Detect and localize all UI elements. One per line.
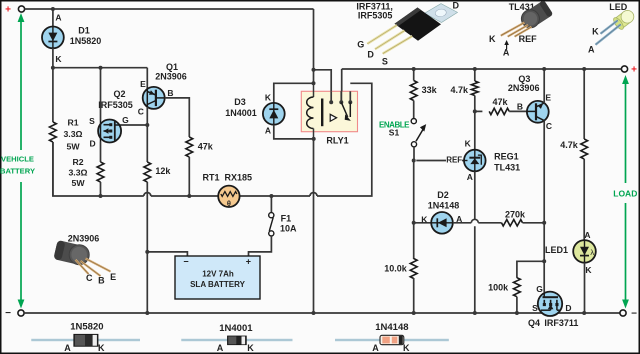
wire bottom horizontal mid bbox=[151, 195, 310, 197]
resistor 33k bbox=[410, 81, 417, 101]
wire contact 1 stub bbox=[330, 91, 332, 102]
label TL431 package bbox=[509, 2, 535, 12]
svg-text:B: B bbox=[167, 88, 173, 98]
label RT1 RX185 bbox=[203, 173, 253, 183]
wire 100k to bottom rail bbox=[516, 297, 518, 313]
wire 47k to bottom wire bbox=[188, 157, 190, 196]
svg-text:S1: S1 bbox=[389, 127, 400, 137]
wire Q1 collector bbox=[146, 107, 148, 125]
svg-text:C: C bbox=[546, 121, 552, 131]
pin A label 1N4148 bbox=[372, 343, 379, 353]
wire S1 to REF node bbox=[413, 147, 415, 161]
diode D1 bbox=[42, 27, 64, 49]
regulator REG1 TL431 bbox=[464, 150, 486, 172]
relay contact moving arm NC bbox=[330, 114, 336, 121]
pin S of Q2 bbox=[89, 116, 95, 126]
node D2 cathode junction bbox=[412, 221, 416, 225]
node Q3 collector / 270k bbox=[542, 221, 546, 225]
fuse F1 bbox=[269, 213, 274, 236]
svg-text:E: E bbox=[545, 92, 551, 102]
svg-text:E: E bbox=[110, 272, 116, 282]
pin C label 2N3906 bbox=[86, 273, 93, 283]
wire gate node to 100k bbox=[517, 261, 544, 278]
svg-text:1N4148: 1N4148 bbox=[375, 322, 408, 333]
svg-text:K: K bbox=[55, 54, 62, 64]
label LOAD bbox=[613, 189, 637, 199]
load arrow down bbox=[622, 203, 629, 309]
svg-text:+: + bbox=[5, 5, 11, 16]
label Q2 IRF5305 bbox=[98, 89, 133, 110]
label REF bbox=[446, 155, 462, 164]
svg-text:A: A bbox=[55, 13, 61, 23]
pin D of Q2 bbox=[90, 138, 96, 148]
pin K lead TL431 bbox=[501, 23, 525, 36]
wire 47k horiz left bbox=[475, 110, 483, 112]
svg-text:12k: 12k bbox=[155, 166, 171, 176]
svg-text:47k: 47k bbox=[198, 141, 214, 151]
wire contact 2 stub bbox=[340, 91, 342, 102]
svg-text:θ: θ bbox=[227, 199, 231, 208]
pin K of D2 bbox=[421, 214, 428, 224]
svg-text:Q4: Q4 bbox=[528, 318, 540, 328]
wire REG1 anode down bbox=[474, 171, 476, 219]
label LED package bbox=[609, 2, 628, 12]
svg-text:D1: D1 bbox=[78, 26, 90, 36]
wire R1 to bottom wire bbox=[52, 142, 54, 196]
pin G lead TO-220 bbox=[367, 25, 397, 44]
pin A label TL431 bbox=[503, 47, 510, 57]
node battery negative branch bbox=[145, 250, 149, 254]
wire R2 to bottom wire bbox=[100, 182, 102, 196]
label LED1 bbox=[545, 245, 568, 255]
svg-text:IRF3711: IRF3711 bbox=[544, 318, 578, 328]
wire F1 top bbox=[270, 196, 272, 213]
label D2 1N4148 bbox=[428, 190, 460, 211]
wire hop over D2 line bbox=[471, 219, 478, 222]
wire contact 2 to right rail bbox=[340, 69, 342, 102]
transistor Q2 bbox=[98, 120, 121, 143]
wire upper cross bbox=[53, 67, 147, 69]
svg-text:TL431: TL431 bbox=[494, 163, 520, 173]
pin D lead TO-220 bbox=[375, 31, 405, 50]
resistor 10.0k bbox=[410, 259, 417, 279]
node right rail / 4.7k right bbox=[582, 67, 586, 71]
terminal - load bbox=[620, 309, 637, 320]
diode D2 bbox=[431, 212, 453, 234]
pin A label 1N5820 bbox=[64, 343, 71, 353]
transistor Q3 bbox=[527, 101, 549, 123]
svg-text:2N3906: 2N3906 bbox=[68, 234, 100, 244]
svg-text:D: D bbox=[565, 303, 571, 313]
svg-text:BATTERY: BATTERY bbox=[0, 167, 35, 176]
pin G label TO-220 bbox=[357, 39, 364, 49]
wire LED1 to bottom rail bbox=[584, 263, 586, 314]
pin A arrow TL431 bbox=[504, 40, 509, 49]
svg-text:G: G bbox=[357, 39, 364, 49]
wire 4.7k right top bbox=[583, 69, 585, 139]
svg-text:K: K bbox=[489, 34, 496, 44]
pin A lead LED bbox=[596, 24, 621, 44]
pin S of Q4 bbox=[532, 303, 538, 313]
svg-text:K: K bbox=[247, 343, 254, 353]
svg-text:Q2: Q2 bbox=[113, 89, 125, 99]
node R2 / bottom wire bbox=[99, 194, 103, 198]
resistor 12k bbox=[144, 162, 151, 182]
svg-text:5W: 5W bbox=[66, 142, 80, 152]
svg-text:Q1: Q1 bbox=[166, 62, 178, 72]
pin A of LED1 bbox=[584, 230, 590, 240]
package TO-220 body bbox=[395, 8, 442, 41]
diode 1N4001 lead bbox=[181, 339, 292, 341]
pin K lead LED bbox=[601, 20, 618, 33]
pin A of D1 bbox=[55, 13, 61, 23]
svg-text:D: D bbox=[90, 138, 96, 148]
svg-text:RT1 RX185: RT1 RX185 bbox=[203, 173, 253, 183]
label 1N4148 diode bbox=[375, 322, 408, 333]
resistor 47k horizontal bbox=[489, 108, 509, 114]
svg-text:D3: D3 bbox=[234, 97, 246, 107]
wire D2 line bbox=[414, 222, 432, 224]
svg-text:C: C bbox=[138, 106, 144, 116]
resistor 4.7k right bbox=[581, 139, 588, 159]
svg-text:1N4001: 1N4001 bbox=[219, 323, 253, 334]
svg-text:33k: 33k bbox=[422, 85, 438, 95]
svg-text:VEHICLE: VEHICLE bbox=[1, 155, 34, 164]
wire bottom horizontal left bbox=[53, 142, 144, 196]
wire REG1 anode to bottom rail bbox=[474, 226, 476, 313]
package TO-92 TL431 bbox=[521, 0, 553, 28]
label IRF3711 IRF5305 package bbox=[356, 1, 393, 20]
node gate junction bbox=[542, 259, 546, 263]
battery 12V 7Ah SLA bbox=[175, 256, 260, 299]
terminal + load bbox=[621, 65, 637, 76]
node REF junction bbox=[412, 159, 416, 163]
label R2 3.3ohm 5W bbox=[68, 157, 87, 188]
svg-text:3.3Ω: 3.3Ω bbox=[68, 168, 87, 178]
node coil line / contact wire bbox=[312, 68, 316, 72]
label D3 1N4001 bbox=[225, 97, 257, 118]
label D1 1N5820 bbox=[70, 26, 102, 46]
svg-text:10A: 10A bbox=[280, 224, 297, 234]
diode 1N4001 body bbox=[228, 336, 247, 345]
pin REF label TL431 bbox=[519, 34, 538, 44]
resistor 100k bbox=[514, 278, 521, 297]
pin C of Q1 bbox=[138, 106, 144, 116]
svg-text:K: K bbox=[585, 265, 592, 275]
wire Q3 emitter bbox=[543, 69, 545, 104]
label Q3 2N3906 bbox=[508, 74, 540, 93]
svg-text:47k: 47k bbox=[492, 97, 508, 107]
svg-text:K: K bbox=[465, 139, 472, 149]
label 47k horizontal bbox=[492, 97, 508, 107]
pin REF lead TL431 bbox=[515, 27, 532, 37]
node Q1 collector / Q2 gate / 12k bbox=[145, 123, 149, 127]
package LED body bbox=[612, 7, 637, 31]
switch S1 bbox=[411, 119, 426, 147]
node 10k / bottom rail bbox=[412, 311, 416, 315]
wire REF node down bbox=[413, 161, 415, 223]
pin K label LED bbox=[592, 26, 599, 36]
wire Q1 emitter bbox=[146, 68, 148, 89]
label 4.7k upper bbox=[450, 85, 469, 95]
svg-text:F1: F1 bbox=[281, 214, 292, 224]
label 33k bbox=[422, 85, 438, 95]
transistor Q4 bbox=[538, 292, 562, 316]
terminal + vehicle battery bbox=[5, 5, 25, 16]
node coil top / D3 bbox=[312, 81, 316, 85]
node relay contact 1 bbox=[329, 100, 333, 104]
node coil bottom / D3 bbox=[312, 137, 316, 141]
svg-text:1N5820: 1N5820 bbox=[70, 36, 102, 46]
svg-text:12V 7Ah: 12V 7Ah bbox=[202, 270, 234, 279]
wire coil line upper bbox=[313, 70, 315, 84]
label F1 10A bbox=[280, 214, 297, 234]
relay RLY1 box bbox=[301, 91, 357, 131]
wire D3 anode bbox=[274, 125, 314, 139]
svg-text:A: A bbox=[588, 45, 595, 55]
svg-text:E: E bbox=[140, 79, 146, 89]
node upper cross / Q2 source bbox=[99, 66, 103, 70]
resistor R2 bbox=[97, 162, 104, 182]
diode 1N4148 lead bbox=[335, 339, 449, 341]
node relay contact 3 bbox=[348, 100, 352, 104]
node right rail / Q3 emitter bbox=[542, 67, 546, 71]
resistor 4.7k upper bbox=[471, 81, 478, 96]
LED LED1 bbox=[573, 240, 596, 263]
wire hop over relay coil line bbox=[310, 193, 317, 196]
node 100k / bottom rail bbox=[515, 311, 519, 315]
svg-text:A: A bbox=[372, 343, 379, 353]
svg-text:A: A bbox=[217, 343, 224, 353]
resistor 270k bbox=[502, 220, 523, 226]
label REG1 TL431 bbox=[494, 152, 520, 173]
pin D of Q4 bbox=[565, 303, 571, 313]
node right rail / REG1 K bbox=[473, 67, 477, 71]
svg-text:LOAD: LOAD bbox=[613, 189, 637, 199]
label Q1 2N3906 bbox=[155, 62, 187, 82]
svg-text:A: A bbox=[265, 126, 271, 136]
pin K label 1N5820 bbox=[98, 343, 105, 353]
svg-text:2N3906: 2N3906 bbox=[155, 71, 187, 81]
svg-text:IRF5305: IRF5305 bbox=[98, 100, 133, 110]
svg-text:2N3906: 2N3906 bbox=[508, 83, 540, 93]
svg-text:A: A bbox=[503, 47, 510, 57]
pin A of D2 bbox=[456, 214, 462, 224]
wire D2 node to 10k bbox=[413, 223, 415, 259]
package TO-92 2N3906 bbox=[53, 240, 89, 265]
label 10.0k bbox=[384, 263, 408, 273]
label ENABLE S1 bbox=[379, 121, 410, 138]
pin K label TL431 bbox=[489, 34, 496, 44]
wire collector node to 12k bbox=[146, 125, 148, 162]
transistor Q1 bbox=[143, 87, 165, 109]
wire to SLA battery negative bbox=[147, 252, 187, 256]
svg-text:3.3Ω: 3.3Ω bbox=[63, 129, 82, 139]
svg-text:REF: REF bbox=[446, 155, 462, 164]
pin A of D3 bbox=[265, 126, 271, 136]
wire 12k down across bbox=[146, 182, 148, 252]
svg-text:REG1: REG1 bbox=[494, 152, 519, 162]
node top rail / D1 bbox=[51, 7, 55, 11]
svg-text:S: S bbox=[89, 116, 95, 126]
pin G of Q2 bbox=[122, 115, 129, 125]
label RLY1 bbox=[326, 136, 348, 146]
svg-text:K: K bbox=[98, 343, 105, 353]
wire D1 anode bbox=[52, 9, 54, 27]
label 270k bbox=[505, 209, 526, 219]
vehicle battery arrow down bbox=[18, 182, 25, 309]
svg-text:100k: 100k bbox=[488, 282, 509, 292]
wire Q2 gate bbox=[121, 124, 147, 126]
pin B lead 2N3906 bbox=[81, 261, 101, 276]
wire REG1 cathode bbox=[474, 69, 476, 81]
label Q4 IRF3711 bbox=[528, 318, 578, 328]
svg-text:G: G bbox=[122, 115, 129, 125]
wire 33k to S1 bbox=[413, 101, 415, 119]
terminal - vehicle battery bbox=[5, 308, 24, 319]
svg-text:A: A bbox=[584, 230, 590, 240]
relay contact arm bbox=[341, 102, 351, 121]
svg-text:1N5820: 1N5820 bbox=[70, 322, 103, 333]
pin E of Q1 bbox=[140, 79, 146, 89]
vehicle battery arrow up bbox=[18, 13, 25, 150]
node LED branch / bottom rail bbox=[582, 311, 586, 315]
resistor R1 bbox=[50, 122, 57, 142]
pin E lead 2N3906 bbox=[86, 259, 111, 272]
svg-text:4.7k: 4.7k bbox=[450, 85, 469, 95]
node coil branch / bottom rail bbox=[312, 311, 316, 315]
diode D3 bbox=[263, 103, 285, 125]
pin E of Q3 bbox=[545, 92, 551, 102]
svg-text:S: S bbox=[382, 56, 388, 66]
label 2N3906 package bbox=[68, 234, 100, 244]
svg-text:K: K bbox=[265, 93, 272, 103]
svg-text:1N4148: 1N4148 bbox=[428, 201, 460, 211]
svg-text:A: A bbox=[64, 343, 71, 353]
label 1N4001 diode bbox=[219, 323, 253, 334]
pin D label TO-220 bbox=[453, 1, 460, 11]
svg-text:5W: 5W bbox=[71, 178, 85, 188]
pin S label TO-220 bbox=[382, 56, 388, 66]
svg-text:B: B bbox=[517, 101, 523, 111]
diode 1N4148 body bbox=[380, 335, 404, 344]
wire contact1 to coil line bbox=[314, 70, 332, 92]
label 100k bbox=[488, 282, 509, 292]
svg-text:R2: R2 bbox=[72, 157, 83, 167]
node bottom wire / F1 bbox=[269, 194, 273, 198]
label 4.7k right bbox=[560, 140, 579, 150]
label 12k bbox=[155, 166, 171, 176]
wire F1 to battery positive bbox=[249, 236, 272, 256]
pin A of REG1 bbox=[467, 172, 473, 182]
svg-text:C: C bbox=[86, 273, 93, 283]
pin E label 2N3906 bbox=[110, 272, 116, 282]
svg-text:LED1: LED1 bbox=[545, 245, 568, 255]
pin B label 2N3906 bbox=[98, 275, 105, 285]
svg-text:270k: 270k bbox=[505, 209, 526, 219]
pin S lead TO-220 bbox=[383, 36, 413, 54]
load arrow up bbox=[622, 75, 629, 183]
pin A label LED bbox=[588, 45, 595, 55]
wire hop over 12k line bbox=[144, 193, 151, 196]
wire Q2 drain to R2 bbox=[100, 142, 102, 163]
wire top rail bbox=[25, 8, 314, 10]
svg-text:D2: D2 bbox=[437, 190, 449, 200]
svg-text:A: A bbox=[467, 172, 473, 182]
wire D3 cathode bbox=[274, 83, 314, 103]
wire 4.7k to 47k node bbox=[474, 96, 476, 150]
pin K of D3 bbox=[265, 93, 272, 103]
wire D1 to R1 bbox=[52, 48, 54, 122]
wire coil bottom to bottom rail bbox=[313, 139, 315, 313]
label 47k left bbox=[198, 141, 214, 151]
node 47k branch bbox=[473, 109, 477, 113]
wire 10k to bottom rail bbox=[413, 278, 415, 313]
node right rail / 33k bbox=[412, 67, 416, 71]
label 1N5820 diode bbox=[70, 322, 103, 333]
pin C lead 2N3906 bbox=[76, 260, 89, 274]
wire bottom horizontal right bbox=[317, 83, 372, 196]
wire top rail drop bbox=[313, 9, 315, 70]
node D1/R1/Q2 branch bbox=[51, 66, 55, 70]
pin C of Q3 bbox=[546, 121, 552, 131]
svg-text:1N4001: 1N4001 bbox=[225, 108, 257, 118]
svg-text:S: S bbox=[532, 303, 538, 313]
pin K label 1N4148 bbox=[403, 343, 410, 353]
wire contact 3 stub bbox=[349, 91, 351, 117]
pin K label 1N4001 bbox=[247, 343, 254, 353]
diode 1N5820 lead bbox=[31, 339, 140, 341]
label VEHICLE BATTERY bbox=[0, 155, 35, 176]
node 47k / bottom wire bbox=[187, 194, 191, 198]
pin A lead TL431 bbox=[508, 25, 528, 37]
wire Q2 source bbox=[100, 68, 102, 121]
wire right rail bbox=[342, 68, 622, 70]
pin D2 label TO-220 bbox=[367, 50, 374, 60]
diode 1N5820 body bbox=[74, 334, 98, 346]
wire Q1 base to 47k bbox=[165, 98, 190, 137]
svg-text:4.7k: 4.7k bbox=[560, 140, 579, 150]
svg-text:B: B bbox=[98, 275, 105, 285]
svg-text:K: K bbox=[421, 214, 428, 224]
wire 33k top bbox=[413, 69, 415, 81]
svg-text:−: − bbox=[5, 308, 11, 319]
pin K of LED1 bbox=[585, 265, 592, 275]
thermistor RT1 bbox=[218, 186, 239, 208]
svg-text:−: − bbox=[183, 257, 188, 267]
wire REF line bbox=[416, 160, 464, 162]
wire 270k to Q3 collector line bbox=[523, 222, 545, 224]
wire D2 to 270k bbox=[453, 222, 502, 224]
node 12k branch / bottom rail bbox=[145, 311, 149, 315]
wire Q4 gate bbox=[543, 261, 545, 292]
svg-text:G: G bbox=[536, 284, 543, 294]
node REG1 anode / bottom rail bbox=[473, 311, 477, 315]
svg-text:IRF5305: IRF5305 bbox=[358, 10, 393, 20]
resistor 47k left bbox=[186, 137, 193, 157]
svg-text:D: D bbox=[367, 50, 374, 60]
pin G of Q4 bbox=[536, 284, 543, 294]
label R1 3.3ohm 5W bbox=[63, 118, 82, 152]
wire Q3 collector bbox=[543, 120, 545, 222]
svg-text:+: + bbox=[631, 65, 637, 76]
wire 47k to Q3 base bbox=[509, 110, 527, 112]
svg-text:R1: R1 bbox=[67, 118, 78, 128]
relay coil bbox=[307, 83, 323, 139]
pin A label 1N4001 bbox=[217, 343, 224, 353]
svg-text:D: D bbox=[453, 1, 460, 11]
pin B of Q1 bbox=[167, 88, 173, 98]
